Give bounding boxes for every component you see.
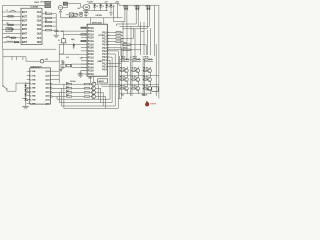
wire Q10 stubs — [150, 76, 152, 78]
svg-text:P3.2A: P3.2A — [88, 60, 94, 63]
resistor R51 — [123, 49, 130, 50]
svg-text:LT5B: LT5B — [30, 91, 35, 93]
wire chain stub c — [26, 91, 30, 93]
svg-text:+: + — [88, 12, 89, 14]
wire right bus v8 — [150, 28, 152, 55]
svg-text:9013x4: 9013x4 — [70, 80, 75, 83]
diode VD22 rectifier — [106, 3, 108, 4]
wire U4 left stub 6 — [27, 90, 30, 92]
diode VD3a — [146, 5, 148, 8]
svg-text:P3.7A: P3.7A — [88, 50, 94, 53]
wire jog d — [123, 28, 148, 30]
wire Q12 stubs — [138, 84, 140, 86]
wire res row A — [107, 44, 123, 46]
transistor Q9 — [136, 78, 140, 82]
wire U2 row9 long — [59, 53, 81, 55]
svg-text:LT1B: LT1B — [30, 75, 35, 77]
wire box left v — [120, 38, 122, 56]
svg-text:LT8B: LT8B — [30, 104, 35, 106]
wire bus right of U1 — [55, 14, 57, 30]
ground chain — [22, 106, 29, 108]
resistor R812 — [142, 79, 143, 81]
capacitor C18 xtal — [64, 63, 66, 65]
svg-text:9013: 9013 — [121, 94, 124, 96]
wire diode drop 1 — [124, 11, 126, 22]
wire mcu bus vB — [117, 51, 119, 109]
wire key col3 — [15, 56, 17, 60]
svg-text:R0 1k: R0 1k — [144, 56, 148, 58]
wire array h5b — [102, 85, 120, 87]
wire xtal gnd — [60, 64, 62, 69]
transformer T1 — [63, 2, 67, 5]
wire U4 left stub 9 — [27, 103, 30, 105]
svg-text:P3.0A: P3.0A — [88, 53, 94, 56]
wire stair v4 — [56, 97, 58, 100]
transistor Q7 — [148, 69, 152, 73]
svg-text:V: V — [27, 90, 28, 92]
wire Q1 collector drop — [96, 83, 99, 85]
wire right bus v1 — [122, 22, 124, 60]
wire diode drop 3 — [146, 11, 148, 29]
wire jog a — [114, 21, 125, 23]
capacitor C19 xtal — [64, 66, 66, 68]
node bubble 4 — [50, 96, 52, 98]
svg-text:0.5S: 0.5S — [45, 59, 48, 61]
transistor Q8 — [124, 78, 128, 82]
wire right bus v2 — [126, 24, 128, 60]
diode VD21 rectifier — [100, 3, 102, 4]
diode VD3b — [148, 5, 150, 8]
resistor R801 — [131, 70, 132, 72]
svg-text:IN7T: IN7T — [22, 37, 28, 40]
svg-text:O4A: O4A — [37, 24, 42, 27]
resistor R17 bottom row — [14, 41, 18, 42]
svg-text:P3.1A: P3.1A — [88, 30, 94, 33]
svg-text:P3.3A: P3.3A — [88, 63, 94, 66]
wire U2 row6 left — [59, 43, 81, 45]
wire array bus 4a — [155, 44, 157, 96]
svg-text:R1 2k0: R1 2k0 — [131, 77, 136, 79]
AC source B-in circle — [58, 6, 62, 10]
diode VD9 — [138, 58, 140, 60]
wire Q4 collector drop — [96, 96, 106, 98]
transistor Q13 — [148, 87, 152, 91]
wire U3 to mid rail — [85, 9, 87, 12]
svg-text:Q2A: Q2A — [45, 78, 50, 81]
wire +5V rail — [88, 2, 119, 4]
wire rail step — [118, 3, 120, 5]
wire array bus L — [118, 56, 120, 99]
resistor R822 — [142, 87, 143, 89]
svg-text:7805: 7805 — [85, 7, 88, 9]
svg-text:IN8T: IN8T — [22, 41, 28, 44]
resistor R62 base — [67, 92, 72, 93]
wire Q6 stubs — [138, 67, 140, 69]
wire Q11 stubs — [126, 84, 128, 86]
node bubble 2 — [50, 87, 52, 89]
wire Q3 collector drop — [96, 91, 104, 93]
resistor R41 — [116, 35, 121, 36]
svg-text:Q3A: Q3A — [45, 82, 50, 85]
wire right bus v6 — [143, 22, 145, 55]
diode VD23 rectifier — [110, 3, 112, 4]
resistor R34 at U2 left — [81, 40, 86, 41]
svg-text:LT4B: LT4B — [30, 86, 35, 89]
wire jog e — [141, 30, 144, 32]
wire array bus 2a — [130, 56, 132, 96]
transistor Q3 — [92, 90, 96, 94]
diode VD20 rectifier — [94, 3, 96, 4]
transistor Q6 — [136, 69, 140, 73]
wire U4 left stub 7 — [27, 95, 30, 97]
resistor R22 right of U1 — [46, 21, 52, 22]
node dots on bus — [1, 11, 4, 14]
resistor R821 — [131, 87, 132, 89]
transistor Q12 — [136, 87, 140, 91]
svg-text:LT7B: LT7B — [30, 100, 35, 102]
crystal Y2 box — [152, 87, 158, 92]
node bubble 3 — [50, 92, 52, 94]
svg-text:O7A: O7A — [37, 37, 42, 40]
wire array h2 — [132, 61, 141, 63]
svg-text:Q5A: Q5A — [45, 90, 50, 93]
capacitor C11 — [54, 29, 58, 31]
wire U2 right row 2 — [107, 34, 116, 36]
svg-text:R510: R510 — [124, 42, 128, 44]
wire buzzer row — [64, 33, 81, 35]
svg-text:IN5T: IN5T — [22, 28, 28, 31]
svg-text:LT3B: LT3B — [30, 83, 35, 85]
svg-text:P3.4A: P3.4A — [88, 40, 94, 43]
wire U4 left stub 8 — [27, 99, 30, 101]
wire rail to U2 top a — [90, 18, 92, 24]
svg-text:R1 2k0: R1 2k0 — [120, 77, 125, 79]
svg-text:R1 2k0: R1 2k0 — [120, 68, 125, 70]
svg-text:IN1T: IN1T — [22, 11, 28, 14]
op-amp U4 decoder box — [30, 68, 51, 104]
wire U2 left stubs — [81, 27, 87, 29]
wire U2 right row 3 — [107, 38, 116, 40]
capacitor C25 pair — [80, 12, 82, 14]
wire U4 left stub 5 — [27, 86, 30, 88]
wire stair v2 — [61, 88, 63, 106]
resistor R71 — [131, 58, 133, 60]
svg-text:IN3T: IN3T — [22, 20, 28, 23]
wire mcu bus vC — [114, 54, 116, 106]
svg-text:P3.6A: P3.6A — [88, 73, 94, 76]
wire top rail to U1 area — [3, 5, 48, 7]
ground below C11 — [54, 34, 60, 36]
wire array h5 — [100, 83, 159, 85]
wire mcu bus vD — [111, 57, 113, 102]
diode VD10 — [149, 58, 151, 60]
wire key col4 — [22, 56, 24, 60]
resistor R802 — [142, 70, 143, 72]
wire U4 left stub 4 — [27, 82, 30, 84]
svg-text:R2: R2 — [7, 23, 9, 25]
wire array h4 — [119, 74, 158, 76]
wire stair v3 — [58, 92, 60, 102]
transistor Q11 — [124, 87, 128, 91]
logo text — [150, 103, 151, 104]
resistor R14 left of U1 — [8, 28, 13, 30]
wire left bus v — [58, 44, 60, 83]
wire mid rail — [83, 10, 108, 12]
resistor R43 — [116, 41, 121, 42]
svg-text:R5: R5 — [45, 20, 47, 22]
switch S1 — [2, 49, 4, 85]
svg-text:C0: C0 — [96, 6, 98, 8]
resistor R72 — [143, 58, 145, 60]
svg-text:R1 2k0: R1 2k0 — [143, 86, 148, 88]
resistor R11 left of U1 — [8, 16, 13, 17]
wire U2 right low 10 — [107, 59, 110, 61]
op-amp U1 hex inverter box — [21, 8, 42, 44]
wire under-mcu v1 — [90, 76, 92, 84]
wire long return y49 — [3, 48, 57, 50]
regulator U3 7805 oval — [83, 5, 90, 10]
svg-text:LTC5: LTC5 — [98, 35, 102, 37]
svg-text:R0 1k: R0 1k — [133, 56, 137, 58]
wire jog b — [117, 23, 137, 25]
wire rail to U2 top b — [103, 18, 105, 24]
wire right bus v4 — [134, 29, 136, 60]
wire array bus 3b — [143, 60, 145, 96]
resistor R24 right of U1 — [46, 30, 52, 31]
svg-text:Q0A: Q0A — [45, 70, 50, 73]
resistor R61 base — [67, 88, 72, 89]
wire U2 right low 6 — [107, 47, 121, 49]
wire array h3 — [144, 61, 153, 63]
wire U2 right low 8 — [107, 53, 115, 55]
wire Q7 stubs — [150, 67, 152, 69]
svg-text:O6A: O6A — [37, 33, 42, 36]
wire array bus 3a — [142, 56, 144, 96]
wire array h6 — [119, 92, 151, 94]
svg-text:O1A: O1A — [37, 11, 42, 14]
connector J1 lower contact — [45, 5, 51, 8]
wire U2 row2 to bus — [56, 30, 81, 32]
wire U1 right row 4 — [42, 25, 46, 27]
wire res A drop — [145, 45, 147, 55]
wire switch out — [6, 90, 8, 91]
wire right bus v7 — [146, 30, 148, 55]
inductor L0 row1 arc — [10, 10, 16, 12]
diode VD7 — [24, 98, 27, 100]
wire Q9 stubs — [138, 76, 140, 78]
wire Q2 collector drop — [96, 87, 101, 89]
svg-text:P3.0A: P3.0A — [88, 27, 94, 30]
wire rail D — [64, 107, 118, 109]
wire U1 right row 3 — [42, 21, 46, 23]
wire stair v1 — [63, 84, 65, 108]
node bubble 1 — [50, 83, 52, 85]
diode VD1b — [126, 5, 128, 8]
svg-text:LT2B: LT2B — [30, 79, 35, 81]
svg-text:30p: 30p — [61, 61, 64, 63]
wire U1 right row 2 — [42, 17, 46, 19]
wire rail A — [57, 98, 110, 100]
svg-text:R1 2k0: R1 2k0 — [131, 68, 136, 70]
resistor R810 — [119, 79, 120, 81]
diode bridge DB1 — [69, 13, 73, 17]
wire U1 left pin rows — [3, 11, 21, 13]
resistor R20 right of U1 — [46, 13, 52, 14]
wire rail C — [62, 105, 116, 107]
wire U2 right low 9 — [107, 56, 112, 58]
wire buzzer v — [63, 32, 65, 39]
svg-text:HM55: HM55 — [98, 61, 103, 63]
wire diode drop 2 — [135, 11, 137, 24]
ground at C20 — [78, 74, 82, 76]
svg-text:Q7A: Q7A — [45, 99, 50, 102]
svg-text:IN2T: IN2T — [22, 15, 28, 18]
transistor Q1 — [92, 82, 96, 86]
wire right bus v10 — [158, 5, 160, 98]
svg-text:R3: R3 — [45, 12, 47, 14]
resistor R40 — [116, 32, 121, 33]
wire U4 right r2 — [50, 74, 59, 76]
diode VD5 — [24, 89, 27, 91]
diode VD2b — [137, 5, 139, 8]
wire left col bend — [3, 56, 26, 58]
resistor R820 — [119, 87, 120, 89]
crystal X1 — [67, 64, 71, 67]
inductor L2 row7 arc — [6, 36, 11, 38]
wire U2 right low 11 — [107, 62, 121, 64]
wire RST row — [81, 70, 88, 72]
wire Q13 stubs — [150, 84, 152, 86]
transistor Q4 — [92, 95, 96, 99]
svg-text:P3.2A: P3.2A — [88, 33, 94, 36]
wire array bottom — [118, 98, 121, 100]
wire Q8 stubs — [126, 76, 128, 78]
resistor R70 — [120, 58, 122, 60]
wire U1 right row 5 — [42, 29, 46, 31]
svg-text:C1: C1 — [102, 6, 104, 8]
polarized cap C12 below source — [60, 10, 62, 12]
wire rail B — [59, 102, 112, 104]
wire U4 left stub 1 — [27, 70, 30, 72]
wire chain top — [16, 82, 30, 84]
wire chain v — [25, 83, 27, 106]
resistor R32 at U2 left — [81, 34, 86, 35]
capacitor C20 reset — [80, 71, 82, 73]
diode VD2a — [135, 5, 137, 8]
resistor R42 — [116, 38, 121, 39]
svg-text:C22: C22 — [80, 57, 83, 59]
svg-text:IN6T: IN6T — [22, 33, 28, 36]
svg-text:LT0B: LT0B — [30, 71, 35, 73]
wire key col2 — [11, 56, 13, 60]
svg-text:9013 2k: 9013 2k — [142, 95, 148, 97]
resistor R13 left of U1 — [8, 24, 13, 26]
svg-text:IN4T: IN4T — [22, 24, 28, 27]
svg-text:LT6B: LT6B — [30, 96, 35, 98]
svg-text:P3.1A: P3.1A — [88, 57, 94, 60]
resistor R811 — [131, 79, 132, 81]
connector J1 upper contact — [45, 1, 51, 4]
svg-text:a0.5: a0.5 — [66, 57, 69, 59]
wire U4 right r1 — [50, 70, 59, 72]
svg-text:R510: R510 — [124, 48, 128, 50]
wire U4 left stub 3 — [27, 78, 30, 80]
capacitor C23 block — [98, 79, 108, 83]
transistor V1 circle — [40, 59, 44, 63]
buzzer B1 — [61, 39, 66, 43]
svg-text:Q8A: Q8A — [45, 103, 50, 106]
diode VD8 — [126, 58, 128, 60]
svg-text:R1 2k0: R1 2k0 — [120, 86, 125, 88]
diode VD6 — [24, 94, 27, 96]
transistor Q10 — [148, 78, 152, 82]
svg-text:R0 1k: R0 1k — [121, 56, 125, 58]
wire chain stub d — [22, 98, 26, 100]
svg-text:P3.6A: P3.6A — [88, 47, 94, 50]
op-amp U2 MCU box — [87, 24, 107, 76]
svg-text:P3.4A: P3.4A — [88, 66, 94, 69]
wire chain stub b — [26, 87, 30, 89]
resistor R21 right of U1 — [46, 17, 52, 18]
wire mcu bus vE — [109, 60, 111, 99]
wire T1 to +5V rail — [67, 2, 80, 4]
wire rail join right — [117, 3, 119, 17]
wire U2 row15 left — [77, 73, 81, 75]
svg-text:R1 2k0: R1 2k0 — [143, 68, 148, 70]
wire source to gnd rail — [60, 13, 62, 18]
resistor R23 right of U1 — [46, 25, 52, 26]
resistor R30 at U2 left — [81, 27, 86, 28]
svg-text:A(H): A(H) — [71, 38, 75, 41]
wire res row B — [107, 49, 123, 51]
svg-text:Q6A: Q6A — [45, 95, 50, 98]
resistor R60 base — [67, 84, 72, 85]
wire right bus v9 — [153, 5, 155, 56]
wire gnd rail — [61, 17, 123, 19]
wire U2 right low 7 — [107, 50, 118, 52]
svg-text:P3.5A: P3.5A — [88, 43, 94, 46]
svg-text:O8A: O8A — [37, 41, 42, 44]
ground xtal — [59, 69, 62, 71]
wire Q5 stubs — [126, 67, 128, 69]
wire U4 left stub 2 — [27, 74, 30, 76]
svg-text:R1 2k0: R1 2k0 — [143, 77, 148, 79]
svg-text:LM7805: LM7805 — [96, 15, 102, 17]
diode VD12 mid — [73, 45, 75, 47]
resistor R63 base — [67, 96, 72, 97]
resistor R800 — [119, 70, 120, 72]
transistor Q2 — [92, 86, 96, 90]
node top-left corner — [2, 6, 4, 50]
svg-text:P3.5A: P3.5A — [88, 70, 94, 73]
svg-text:O3A: O3A — [37, 20, 42, 23]
capacitor C17 electrolytic — [85, 11, 87, 12]
wire under-mcu v2 — [93, 76, 95, 82]
diode VD4 — [24, 85, 27, 87]
wire U4 right r3 — [50, 78, 59, 80]
wire U2 right row 4 — [107, 41, 116, 43]
capacitor C24 — [74, 13, 77, 16]
wire right bus v3 — [130, 26, 132, 60]
diode VD1a — [124, 5, 126, 8]
wire buzzer down — [63, 43, 65, 54]
svg-text:O5A: O5A — [37, 28, 42, 31]
svg-text:24C02: 24C02 — [98, 80, 103, 83]
svg-text:O2A: O2A — [37, 15, 42, 18]
transistor Q5 — [124, 69, 128, 73]
wire array bus 2b — [131, 60, 133, 96]
logo flame — [145, 101, 149, 106]
